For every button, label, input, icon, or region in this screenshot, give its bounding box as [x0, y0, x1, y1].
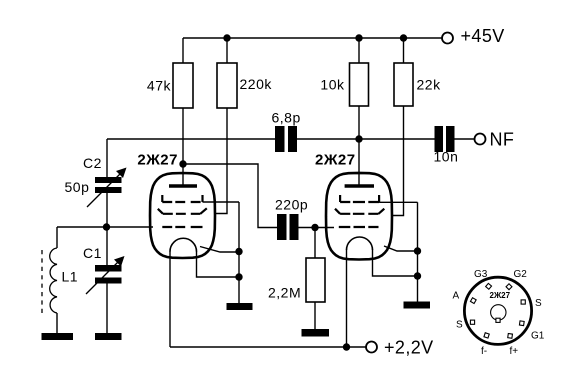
ground (V1) [227, 303, 253, 310]
wire: C1 top stem [106, 227, 108, 265]
tube V2 grid G3 [340, 195, 379, 202]
wire: V1 filament right leg [197, 251, 240, 277]
wire: V1 cathode [200, 247, 239, 253]
resistor 22k [394, 63, 441, 106]
svg-text:2,2M: 2,2M [268, 285, 301, 301]
wire: 10k top stem [358, 38, 360, 63]
wire: 220k top stem [226, 38, 228, 63]
ground (V2) [404, 302, 431, 309]
tube V2 filament [347, 237, 373, 250]
junction dot filament rail [343, 343, 350, 350]
wire: V2 filament right leg [373, 250, 418, 277]
junction dot V1 cathode [235, 248, 242, 255]
tube V1 2Ж27 envelope [137, 152, 215, 259]
terminal NF [475, 130, 515, 150]
wire: feedback line to 6,8p [107, 138, 275, 140]
junction dot V2 cathode [414, 247, 421, 254]
svg-text:A: A [453, 291, 460, 302]
wire: V2 G3 to ground bus [379, 202, 417, 251]
wire: +45V top supply rail [183, 37, 442, 39]
wire: 220k bottom to V1 screen grid [215, 108, 228, 214]
wire: 22k top stem [403, 38, 405, 63]
wire: 47k top stem [182, 38, 184, 63]
svg-text:+2,2V: +2,2V [384, 338, 434, 358]
svg-text:G2: G2 [514, 269, 528, 280]
svg-text:f-: f- [481, 346, 487, 357]
tube V2 2Ж27 envelope [315, 152, 392, 260]
tube V1 grid G2 [158, 208, 207, 214]
wire: V2 filament left leg [346, 250, 348, 348]
svg-text:NF: NF [490, 130, 515, 150]
wire: 6,8p to V2 anode node [297, 138, 435, 140]
junction dot V2 grid [311, 224, 318, 231]
svg-text:S: S [535, 298, 542, 309]
svg-text:22k: 22k [417, 77, 442, 93]
wire: V1 G3 to ground bus [203, 202, 240, 252]
resistor 10k [320, 63, 368, 106]
wire: 2,2M bottom stem [314, 302, 316, 329]
svg-text:+45V: +45V [461, 26, 505, 46]
terminal +2,2V [366, 338, 434, 358]
resistor 220k [217, 63, 272, 108]
svg-text:2Ж27: 2Ж27 [490, 291, 511, 300]
socket pin holes [470, 283, 525, 338]
ground (2,2M) [302, 329, 330, 337]
wire: V2 ground stem [417, 251, 419, 302]
ground (L1) [42, 333, 74, 340]
wire: 2,2M top stem [314, 228, 316, 259]
capacitor 10n [434, 126, 459, 165]
svg-text:220k: 220k [240, 76, 273, 92]
tube V2 grid G2 [335, 209, 384, 214]
wire: 47k bottom to tube V1 anode [182, 108, 184, 186]
junction dot rail/22k [400, 34, 407, 41]
svg-text:f+: f+ [510, 346, 519, 357]
wire: C2 top branch [106, 139, 108, 177]
capacitor 6,8p [272, 110, 301, 153]
tube V2 anode plate [345, 184, 374, 187]
wire: C1 bottom stem [106, 284, 108, 334]
resistor 47k [147, 63, 193, 108]
wire: 10n to NF terminal [454, 138, 475, 140]
wire: V1 anode to 220p coupling [183, 164, 277, 228]
svg-text:2Ж27: 2Ж27 [315, 152, 356, 169]
wire: 22k bottom to V2 screen grid [391, 106, 404, 216]
svg-text:47k: 47k [147, 78, 172, 94]
capacitor C2 50p (variable) [65, 155, 127, 207]
junction dot V2 filament/ground [414, 272, 421, 279]
tube V1 filament [170, 238, 197, 251]
svg-text:50p: 50p [65, 179, 90, 195]
junction dot rail/10k [355, 34, 362, 41]
socket label 2Ж27 [490, 291, 511, 300]
junction dot V1 filament/ground [235, 273, 242, 280]
tube V1 anode plate [169, 184, 197, 187]
wire: V2 cathode [384, 246, 418, 251]
capacitor C1 (variable) [83, 245, 125, 294]
socket center spigot [491, 305, 506, 323]
wire: 220p input stem [298, 227, 334, 229]
socket diagram 2Ж27 base outline [464, 277, 531, 344]
tube V1 grid G3 [162, 195, 202, 202]
svg-text:C2: C2 [83, 155, 102, 171]
svg-text:S: S [456, 320, 463, 331]
svg-text:C1: C1 [83, 245, 102, 261]
svg-text:6,8p: 6,8p [272, 110, 301, 126]
svg-text:L1: L1 [62, 269, 79, 285]
junction dot V1 anode [179, 160, 186, 167]
resistor 2,2M [268, 258, 325, 302]
junction dot V2 anode / NF line [355, 135, 362, 142]
wire: V1 ground stem [238, 252, 240, 304]
svg-text:10n: 10n [434, 149, 459, 165]
tube V1 grid G1 [162, 226, 202, 228]
svg-text:G1: G1 [531, 331, 545, 342]
wire: V1 filament left leg [169, 251, 171, 347]
svg-text:G3: G3 [474, 269, 488, 280]
junction dot rail/220k [223, 34, 230, 41]
junction dot tank node [103, 223, 110, 230]
svg-text:220p: 220p [275, 197, 308, 213]
socket pin labels [453, 269, 545, 357]
svg-text:10k: 10k [320, 77, 345, 93]
ground (C1) [95, 333, 122, 340]
svg-text:2Ж27: 2Ж27 [137, 152, 178, 169]
inductor L1 [42, 227, 78, 333]
wire: +2,2V filament rail [170, 346, 366, 348]
wire: C2 bottom to tank node [106, 193, 108, 227]
wire: tank node to V1 control grid [57, 226, 153, 228]
tube V2 grid G1 [339, 226, 379, 228]
capacitor 220p [275, 197, 308, 241]
terminal +45V [442, 26, 505, 46]
wire: 10k bottom to tube V2 anode [358, 106, 360, 185]
